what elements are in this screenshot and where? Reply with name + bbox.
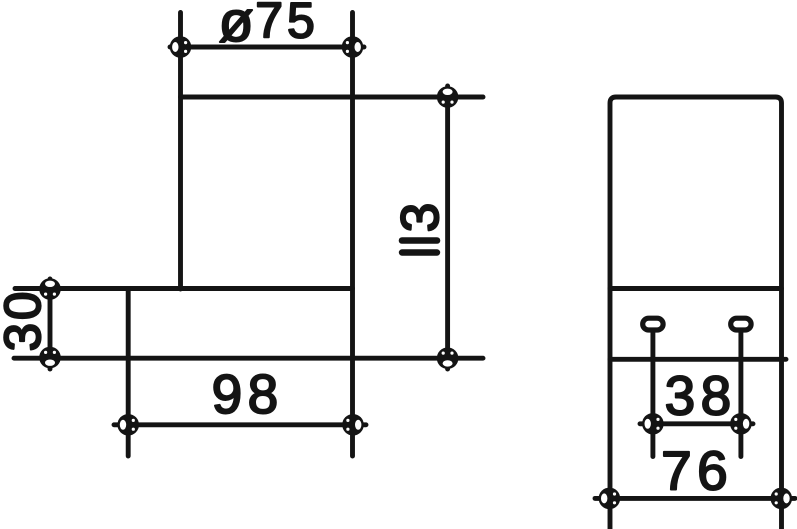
terminator 98 left <box>117 414 139 436</box>
terminator 38 left <box>642 413 664 435</box>
wire: arm left edge / 98 extension x=128.2 <box>126 289 131 457</box>
wire: slot centerline right <box>738 332 743 457</box>
wire: arm bottom edge + extensions, y=358.2 <box>14 356 483 361</box>
wire: left extension line / post left edge x=180.5 <box>178 13 183 290</box>
dimension line 113 <box>445 86 450 369</box>
slot hole left <box>643 318 663 330</box>
svg-text:76: 76 <box>661 440 733 502</box>
terminator 76 left <box>599 488 621 510</box>
wire: post top edge + 113 extension, y=97 <box>181 95 484 100</box>
terminator 76 right <box>771 488 793 510</box>
terminator 98 right <box>342 414 364 436</box>
svg-text:3: 3 <box>391 203 450 232</box>
svg-text:ø: ø <box>219 0 254 54</box>
terminator 38 right <box>730 413 752 435</box>
terminator 113 bottom <box>437 347 459 369</box>
value label 113 (rotated, compact) <box>391 203 450 255</box>
dimension line 38 <box>640 421 753 426</box>
side view outline <box>610 97 782 529</box>
slot hole right <box>731 318 751 330</box>
terminator 30 bottom <box>39 347 61 369</box>
wire: right extension line / post right edge x=352.5 <box>350 13 355 457</box>
svg-text:98: 98 <box>212 363 284 425</box>
dimension line o75 <box>170 45 364 50</box>
terminator o75 right <box>342 36 364 58</box>
terminator 113 top <box>437 86 459 108</box>
terminator o75 left <box>170 36 192 58</box>
dimension line 76 <box>595 496 795 501</box>
value label 30 (rotated) <box>0 289 51 352</box>
svg-text:30: 30 <box>0 289 51 352</box>
wire: slot centerline left <box>650 332 655 457</box>
dimension line 30 <box>48 279 53 369</box>
wire: arm top edge + 30 extension, y=288.5 <box>15 286 353 291</box>
dimension line 98 <box>114 422 366 427</box>
svg-text:75: 75 <box>255 0 319 49</box>
terminator 30 top <box>39 278 61 300</box>
wire: side view line y=359.3 <box>610 357 786 362</box>
wire: side view line y=288.5 <box>610 286 782 291</box>
svg-text:38: 38 <box>665 365 737 427</box>
